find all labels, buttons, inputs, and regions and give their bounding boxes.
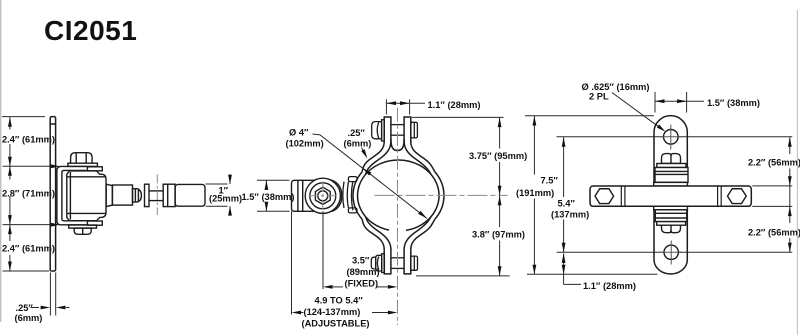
top ribbed block [655, 168, 688, 183]
ext line plate bottom [527, 273, 658, 275]
svg-text:3.8″ (97mm): 3.8″ (97mm) [472, 229, 525, 239]
cap nut [133, 189, 142, 202]
top-right outer flare [411, 142, 435, 172]
svg-text:(137mm): (137mm) [551, 210, 589, 220]
clamp outer band side arcs [353, 116, 444, 274]
pivot block [292, 180, 342, 211]
right view plate [654, 116, 687, 274]
.25 dim leader dash [31, 307, 40, 309]
svg-text:(6mm): (6mm) [344, 139, 372, 149]
saddle between block and clamp [343, 177, 357, 213]
top ears [384, 116, 391, 142]
svg-text:(102mm): (102mm) [286, 139, 324, 149]
pivot crosshair [309, 182, 339, 211]
svg-text:1.5″ (38mm): 1.5″ (38mm) [707, 98, 760, 108]
left view bracket assembly [57, 153, 205, 235]
washer pair 2 [163, 184, 175, 206]
svg-text:3.75″ (95mm): 3.75″ (95mm) [469, 151, 527, 161]
ext line plate bottom [3, 270, 50, 272]
U bracket yoke [57, 166, 87, 224]
5.4 dim line [563, 137, 565, 197]
arrows right view [533, 99, 792, 274]
arm hex bolt right [728, 189, 747, 204]
bottom-right outer flare [411, 219, 435, 249]
ext line bottom hole center [557, 251, 793, 253]
arm hex bolt left [595, 189, 614, 204]
ext line at bracket top [3, 165, 52, 167]
bottom ribbed block [655, 210, 687, 222]
top hole [664, 130, 679, 145]
1.1 dim line and leader [563, 253, 565, 284]
end cylinder [175, 184, 205, 206]
bottom clamp bolt [371, 254, 417, 273]
.25 arrows [41, 306, 51, 310]
1 inch dim [206, 175, 231, 216]
bottom-left outer flare [362, 219, 384, 249]
svg-text:2.2″ (56mm): 2.2″ (56mm) [748, 158, 800, 168]
svg-text:.25″: .25″ [16, 303, 34, 313]
top washer [657, 164, 686, 168]
1.1 (28mm) top dim [386, 99, 425, 114]
arrows at 224.6 [8, 215, 12, 225]
svg-text:(ADJUSTABLE): (ADJUSTABLE) [302, 318, 370, 328]
bottom stack [654, 206, 688, 232]
svg-text:7.5″: 7.5″ [541, 176, 559, 186]
.25 band leader [362, 148, 366, 155]
top-left outer flare [362, 142, 384, 172]
7.5 dim line [533, 116, 535, 175]
neck dome top [391, 139, 404, 151]
ext line arm top [752, 185, 792, 187]
dia .625 leader [612, 93, 660, 128]
top clamp bolt [372, 120, 418, 141]
centerline through rod [156, 175, 158, 216]
bottom hex nut [662, 225, 681, 233]
svg-text:2.4″ (61mm): 2.4″ (61mm) [2, 134, 55, 144]
ext line plate top [525, 115, 654, 117]
top stack: hex nut [654, 154, 688, 186]
collar step [106, 184, 112, 206]
svg-text:1.5″ (38mm): 1.5″ (38mm) [242, 192, 295, 202]
2.2 dim line [789, 137, 791, 154]
svg-text:1.1″ (28mm): 1.1″ (28mm) [428, 100, 481, 110]
arrows at bracket back [51, 164, 60, 168]
top thin plate [654, 182, 688, 186]
svg-text:Ø .625″ (16mm): Ø .625″ (16mm) [582, 82, 650, 92]
outer right arc [435, 172, 444, 220]
arrow down at plate bottom [8, 262, 12, 272]
svg-text:2.8″ (71mm): 2.8″ (71mm) [2, 189, 55, 199]
svg-text:1.1″ (28mm): 1.1″ (28mm) [583, 281, 636, 291]
3.75 / 3.8 dims [412, 117, 510, 276]
svg-text:Ø 4″: Ø 4″ [289, 128, 309, 138]
svg-text:(6mm): (6mm) [15, 313, 43, 323]
right window border [796, 10, 798, 335]
bottom ears [384, 249, 391, 275]
top washer bar [68, 163, 98, 166]
strap bars [87, 167, 102, 171]
bottom washer [657, 222, 686, 226]
dim line 2.4 top segment [9, 117, 11, 129]
washer 1 [145, 184, 150, 206]
ext line top hole center [557, 136, 793, 138]
bottom washer bar [69, 225, 97, 228]
barrel [112, 185, 132, 205]
crossbar arm [590, 186, 751, 206]
bottom thin plate [654, 206, 688, 210]
dim line 2.8 segment [9, 166, 11, 179]
bottom hex nut [74, 228, 91, 234]
arrow up 2.4 top [8, 117, 12, 127]
svg-text:3.5″: 3.5″ [352, 256, 370, 266]
dia 4in leader and diameter line [313, 134, 427, 218]
1.5 (38mm) dim for pivot block [257, 180, 290, 211]
svg-text:.25″: .25″ [348, 128, 366, 138]
ext line top (plate top) [2, 116, 45, 118]
ext line at bracket bottom [3, 224, 52, 226]
3.5 FIXED dim [292, 211, 390, 314]
top hex bolt head [71, 153, 93, 164]
4.9 TO 5.4 ADJUSTABLE dim [301, 312, 389, 314]
pivot hex nut [315, 187, 330, 204]
inner bore (open at bottom between ears) [358, 160, 439, 230]
svg-text:4.9 TO 5.4″: 4.9 TO 5.4″ [315, 295, 364, 305]
svg-text:(124-137mm): (124-137mm) [304, 307, 361, 317]
rod 2 [149, 190, 163, 192]
clamp centerlines [397, 108, 399, 325]
pivot boss circles [305, 178, 340, 213]
top-left inner flare [366, 142, 391, 174]
svg-text:2 PL: 2 PL [589, 92, 609, 102]
svg-text:2.2″ (56mm): 2.2″ (56mm) [748, 228, 800, 238]
1.5 dim [654, 92, 656, 113]
bottom-left inner flare [366, 217, 391, 249]
dim line 2.4 bottom segment [9, 225, 11, 241]
svg-text:(FIXED): (FIXED) [345, 279, 379, 289]
svg-text:5.4″: 5.4″ [558, 198, 576, 208]
left window border [0, 0, 2, 322]
bottom-right inner flare [404, 217, 431, 249]
ext line arm bottom [752, 205, 792, 207]
plate thickness ext lines [49, 273, 51, 316]
svg-text:(191mm): (191mm) [516, 188, 554, 198]
svg-text:CI2051: CI2051 [44, 15, 137, 46]
svg-text:(25mm): (25mm) [209, 194, 242, 204]
cylinder body [67, 171, 106, 221]
svg-text:2.4″ (61mm): 2.4″ (61mm) [2, 244, 55, 254]
svg-text:(89mm): (89mm) [347, 267, 380, 277]
top-right inner flare [404, 142, 431, 174]
arrows at 166.2 [8, 157, 12, 167]
bottom hole [664, 245, 678, 259]
outer left arc [353, 172, 362, 220]
left view wall plate [50, 117, 55, 271]
